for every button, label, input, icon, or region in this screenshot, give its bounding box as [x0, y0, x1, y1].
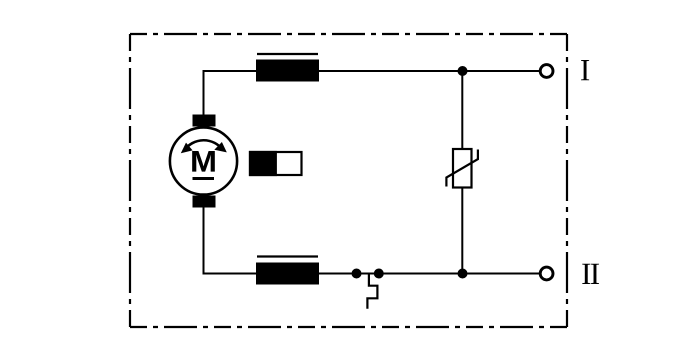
terminal I connector circle — [540, 65, 553, 78]
enclosure boundary (dash-dot frame) — [130, 34, 567, 327]
wire: varistor branch (vertical) — [461, 71, 463, 274]
motor M1 bottom brush — [193, 196, 216, 208]
motor M1 underline — [193, 177, 215, 180]
motor M1 body — [170, 127, 237, 194]
junction dot top (varistor / terminal I node) — [458, 66, 468, 76]
terminal I label — [581, 60, 589, 80]
terminal II connector circle — [540, 267, 553, 280]
wire: motor bottom to terminal II (vertical drop + bottom horizontal) — [204, 207, 540, 274]
permanent magnet (half-filled rectangle) — [249, 151, 302, 176]
choke L2 (bottom suppression choke) — [256, 257, 319, 285]
motor M1 top brush — [193, 115, 216, 127]
motor M1 reversing arc arrow — [181, 140, 227, 153]
junction dot bottom (varistor / terminal II node) — [458, 269, 468, 279]
varistor R1 diagonal stroke — [446, 150, 478, 187]
terminal II label — [582, 264, 590, 284]
varistor R1 body — [453, 149, 472, 188]
motor M1 letter M — [192, 151, 215, 172]
junction dot (chassis tap left) — [352, 269, 362, 279]
wire: motor top to terminal I (vertical riser + top horizontal) — [204, 71, 540, 115]
junction dot (chassis tap right) — [374, 269, 384, 279]
chassis connection stepped lead — [367, 274, 377, 309]
choke L1 (top suppression choke) — [256, 54, 319, 82]
